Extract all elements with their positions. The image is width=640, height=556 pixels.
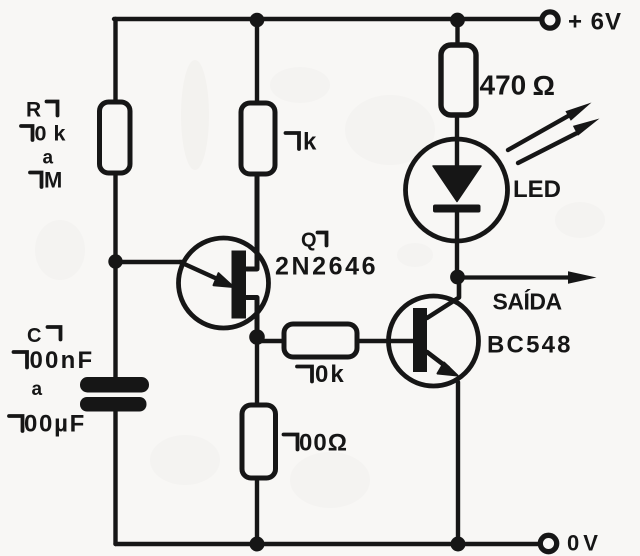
- node junction dot mid-bottom of UJT: [249, 329, 265, 345]
- transistor Q2 base bar: [413, 308, 427, 372]
- svg-text:Ω: Ω: [533, 70, 555, 101]
- node dot saida junction: [450, 270, 465, 285]
- LED cathode bar: [433, 205, 481, 213]
- wire 470R to LED: [455, 115, 459, 166]
- capacitor C1 plate 1: [80, 377, 149, 393]
- wire emitter diagonal: [180, 262, 224, 282]
- node dot top at 470R: [450, 13, 465, 28]
- node saida arrowhead: [568, 271, 597, 283]
- wire emitter horizontal: [116, 260, 183, 264]
- wire 1k to UJT B2: [247, 174, 258, 269]
- wire junction to 100R: [255, 337, 259, 405]
- node dot left: [108, 254, 122, 268]
- label R1 digit 1: [47, 102, 58, 116]
- node dot bottom mid: [250, 537, 265, 552]
- svg-text:470: 470: [480, 70, 527, 101]
- svg-text:00µF: 00µF: [24, 411, 86, 438]
- wire light arrow 2 shaft: [518, 134, 576, 164]
- resistor 1k: [241, 103, 275, 174]
- wire mid vertical upper: [255, 19, 259, 103]
- label Q1 digit 1: [318, 233, 327, 246]
- LED D1 circle: [406, 139, 508, 241]
- svg-text:00Ω: 00Ω: [299, 430, 348, 457]
- label C1 digit 1: [48, 327, 61, 340]
- LED triangle: [433, 166, 481, 202]
- svg-text:+ 6V: + 6V: [568, 9, 622, 36]
- wire junction to 10k: [257, 339, 284, 343]
- node dot top mid: [250, 13, 265, 28]
- svg-text:LED: LED: [513, 176, 561, 203]
- wire 10k to base: [357, 339, 413, 343]
- wire UJT B1 to junction: [247, 298, 258, 338]
- svg-text:C: C: [27, 325, 41, 347]
- resistor 10k horizontal: [284, 324, 357, 357]
- wire collector: [427, 277, 459, 318]
- transistor Q1 base bar: [232, 251, 247, 319]
- wire 100R to bottom rail: [255, 478, 259, 544]
- resistor 100R: [242, 405, 276, 478]
- node light arrow 2 head: [573, 119, 600, 136]
- label 100nF digit 1: [14, 352, 28, 368]
- wire light arrow 1 shaft: [508, 116, 569, 151]
- wire left rail mid: [113, 173, 117, 377]
- wire bottom rail: [116, 542, 539, 546]
- node emitter arrowhead Q2: [438, 363, 458, 376]
- wire left rail lower: [113, 411, 117, 544]
- terminal +6V: [542, 12, 558, 28]
- svg-text:0k: 0k: [35, 122, 73, 146]
- svg-text:BC548: BC548: [487, 332, 573, 359]
- wire emitter diagonal Q2: [427, 352, 448, 368]
- terminal 0V: [540, 535, 556, 551]
- node dot bottom right: [451, 537, 466, 552]
- label 10k mid digit 1: [297, 367, 312, 382]
- label 10k digit 1: [21, 126, 33, 140]
- resistor R1: [100, 102, 131, 173]
- wire top rail: [114, 17, 542, 21]
- wire LED to saida junction: [455, 208, 459, 277]
- label 1M digit 1: [30, 173, 42, 188]
- node light arrow 1 head: [565, 103, 591, 121]
- wire emitter to bottom rail: [456, 382, 460, 544]
- svg-text:SAÍDA: SAÍDA: [493, 288, 562, 315]
- svg-text:a: a: [43, 148, 54, 169]
- transistor Q1 2N2646 UJT circle: [179, 238, 269, 328]
- node emitter arrowhead: [214, 273, 234, 287]
- svg-text:0k: 0k: [315, 361, 346, 388]
- resistor 470R: [441, 45, 476, 115]
- svg-text:k: k: [303, 129, 317, 156]
- label 1k digit 1: [286, 133, 300, 149]
- label 100R digit 1: [284, 435, 298, 450]
- wire left rail upper: [113, 19, 117, 102]
- capacitor C1 plate 2: [80, 397, 147, 412]
- svg-text:Q: Q: [301, 230, 317, 252]
- svg-text:00nF: 00nF: [30, 347, 95, 374]
- label 100uF digit 1: [9, 416, 23, 431]
- wire saida horizontal: [458, 275, 571, 279]
- svg-text:R: R: [26, 99, 41, 122]
- svg-text:2N2646: 2N2646: [275, 253, 378, 281]
- transistor Q2 BC548 circle: [389, 296, 479, 386]
- svg-text:a: a: [32, 379, 43, 400]
- wire top to 470R: [455, 19, 459, 45]
- svg-text:0V: 0V: [567, 531, 602, 556]
- svg-text:M: M: [44, 168, 62, 193]
